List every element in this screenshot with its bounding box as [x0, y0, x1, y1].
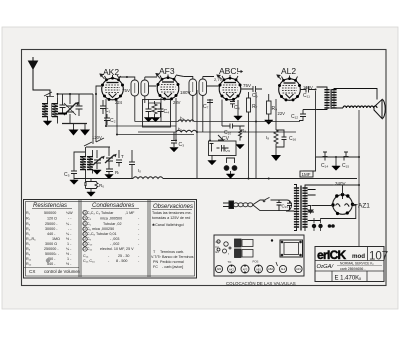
wire speaker return [358, 110, 360, 246]
ABC1 grid stub [217, 75, 222, 79]
observaciones text [151, 211, 194, 269]
svg-text:Rₗ: Rₗ [115, 170, 119, 175]
svg-text:440 -: 440 - [47, 232, 56, 236]
arrow between circles [276, 262, 278, 266]
svg-text:R₅: R₅ [26, 232, 31, 236]
ground under osc caps [105, 175, 113, 179]
wire verticals right [256, 91, 316, 179]
volume control section: C10 cap [222, 124, 245, 129]
svg-text:AL2: AL2 [281, 267, 286, 271]
svg-text:NORMAL SERVICE Kₐ: NORMAL SERVICE Kₐ [340, 262, 374, 266]
ground bar below tuning [62, 123, 87, 125]
svg-text:O C₁₀: O C₁₀ [83, 242, 93, 246]
tube AL2 [278, 76, 301, 102]
ground arrow below R9 [265, 120, 273, 124]
smudge dot in table [46, 258, 50, 262]
resistor rows text [26, 211, 73, 266]
ground arrow between C14 C15 [335, 157, 337, 166]
wire vertical ABC1 down [222, 100, 249, 179]
svg-text:C₁₄: C₁₄ [83, 254, 89, 258]
ground bus wire y178.5 [74, 178, 357, 180]
svg-text:8 - 500: 8 - 500 [116, 259, 127, 263]
svg-text:½ -: ½ - [66, 262, 72, 266]
title box [315, 247, 384, 282]
svg-text:Todas las tensiones me-: Todas las tensiones me- [152, 211, 193, 215]
svg-text:T: T [121, 154, 124, 159]
knob labels [216, 240, 230, 256]
svg-text:O C₇C₈ Tubular 0,01: O C₇C₈ Tubular 0,01 [83, 232, 117, 236]
output transformer [317, 87, 378, 110]
oscillator coil L2 [80, 147, 93, 182]
svg-text:R₁₂: R₁₂ [26, 262, 32, 266]
svg-text:Banco de Terminos: Banco de Terminos [162, 255, 194, 259]
tube AZ1 [331, 193, 354, 215]
ground under C5 [70, 180, 78, 184]
svg-text:C₇: C₇ [203, 104, 209, 110]
svg-text:Tubular ,02: Tubular ,02 [103, 222, 122, 226]
C5a cap in shield box [146, 103, 152, 118]
svg-text:control de Volumen: control de Volumen [44, 269, 81, 274]
svg-text:O C₆ mica ,000250: O C₆ mica ,000250 [83, 227, 114, 231]
screw dot [271, 239, 273, 241]
ground arrow cathode [275, 147, 277, 155]
1MF box [300, 157, 316, 177]
svg-text:carb 28694656 -: carb 28694656 - [340, 267, 366, 271]
antenna [29, 57, 51, 96]
tube circles row [215, 265, 302, 273]
C3 cap on bus [171, 132, 177, 147]
svg-text:120V: 120V [92, 135, 102, 140]
C11 cap right of AL2 [300, 87, 316, 93]
mains switch [263, 197, 287, 201]
svg-text:mod: mod [352, 253, 365, 260]
R9 resistor below AL2 [267, 94, 272, 120]
ground under R6 [87, 192, 95, 196]
svg-text:C₁₄: C₁₄ [321, 163, 328, 169]
power transformer [286, 185, 333, 232]
svg-text:22V: 22V [278, 111, 286, 116]
svg-text:75V: 75V [122, 88, 130, 93]
speaker voice coil wire [343, 106, 377, 108]
svg-text:Condensadores: Condensadores [92, 203, 134, 209]
svg-text:b₆: b₆ [178, 127, 183, 132]
wire bus y121.5 [135, 121, 300, 123]
power transformer top view [280, 240, 303, 257]
C1 cap below AK2 [100, 100, 106, 114]
svg-text:C₁₃: C₁₃ [282, 204, 289, 209]
svg-text:R₄: R₄ [26, 227, 31, 231]
svg-text:Iₒ: Iₒ [138, 168, 141, 173]
AZ1 cathode wires [312, 205, 356, 219]
svg-text:R₆: R₆ [99, 183, 104, 188]
C7 cap on detector line [207, 99, 213, 103]
AF3 grid cap stub [156, 74, 160, 79]
svg-text:C₆: C₆ [225, 148, 231, 154]
C cap at x132 [129, 150, 135, 179]
svg-text:AZ1: AZ1 [296, 267, 301, 271]
condensador circles [83, 210, 87, 251]
svg-text:C₁₅ C₁₆: C₁₅ C₁₆ [83, 259, 95, 263]
svg-text:R₇: R₇ [252, 104, 258, 110]
antenna series cap [60, 94, 66, 113]
svg-text:POS: POS [253, 260, 259, 264]
svg-text:R₁₁: R₁₁ [26, 257, 32, 261]
wire bus y134.5 [117, 134, 194, 136]
AL2 grid stub [277, 75, 281, 80]
antenna input transformer L1 [42, 96, 58, 124]
svg-text:1MΩ: 1MΩ [52, 237, 60, 241]
tube ABC1 [219, 75, 242, 101]
svg-text:AF3: AF3 [243, 267, 248, 271]
svg-text:½ -: ½ - [66, 252, 72, 256]
svg-text:R₃: R₃ [26, 222, 31, 226]
ground under varcap1 [93, 170, 101, 174]
svg-text:R₁₀R₆: R₁₀R₆ [26, 237, 36, 241]
pilot lamps below transformer [312, 224, 316, 228]
ground under L1 [43, 121, 51, 125]
ground below C6 [211, 156, 213, 161]
svg-text:A83: A83 [217, 267, 222, 271]
svg-text:C₁₆: C₁₆ [289, 136, 296, 142]
phone jack TA [224, 158, 237, 174]
wire vertical from T1 area down [135, 100, 145, 122]
C9 coupling cap to AL2 [241, 86, 262, 92]
svg-text:C₄: C₄ [164, 109, 170, 115]
svg-text:¼ -: ¼ - [66, 232, 72, 236]
svg-text:C₂: C₂ [110, 118, 116, 124]
svg-text:3000 Ω: 3000 Ω [45, 242, 57, 246]
ground under C3 [170, 148, 178, 152]
arrow at transformer [308, 205, 313, 213]
svg-text:- ,002: - ,002 [110, 242, 119, 246]
knob circles top-left [217, 240, 231, 253]
ground arrows in shield box [144, 118, 152, 122]
svg-text:mica ,000500: mica ,000500 [100, 217, 122, 221]
svg-text:1MF: 1MF [302, 172, 311, 177]
svg-text:OɪGA/: OɪGA/ [317, 264, 335, 270]
ground under jack [226, 174, 234, 178]
svg-text:✱Canal Vallehingol: ✱Canal Vallehingol [152, 223, 184, 227]
trimmer C-t [76, 94, 83, 113]
svg-text:E 1.470Kₓ: E 1.470Kₓ [335, 276, 362, 282]
horizontal buses [106, 120, 300, 135]
pin dots in tube circles [231, 265, 260, 273]
arrow to AZ1 [354, 204, 358, 206]
svg-text:PN: PN [153, 260, 158, 264]
C5 cap left [71, 152, 86, 180]
long vertical feeders mid [106, 90, 316, 179]
svg-text:AL2: AL2 [281, 66, 296, 76]
tuning gang CV1 [64, 94, 78, 124]
chassis box [214, 235, 304, 276]
wire AL2 cathode down [275, 99, 277, 130]
svg-text:R₉: R₉ [272, 106, 278, 112]
wire T2 to ABC1 [176, 75, 220, 86]
svg-text:Terminos carb.: Terminos carb. [160, 250, 184, 254]
wire bus y132 [138, 131, 296, 133]
svg-text:50000ₖ -: 50000ₖ - [45, 252, 60, 256]
AZ1 top wire [333, 185, 359, 195]
oscillator section: 120V switch wires [84, 98, 110, 147]
schematic border frame [22, 50, 387, 286]
C12 cap below [299, 110, 317, 121]
svg-text:CX: CX [29, 269, 35, 274]
svg-text:C₈: C₈ [234, 105, 240, 111]
svg-text:R₉: R₉ [26, 252, 31, 256]
caps under oscillator [106, 167, 113, 175]
oscillator varcap 1 [93, 150, 104, 169]
svg-text:AZ1: AZ1 [358, 203, 370, 210]
AK2 grid cap stub [100, 74, 119, 79]
svg-text:¼W: ¼W [66, 211, 73, 215]
twisted pair [234, 200, 288, 211]
IF transformer T1 [127, 77, 149, 100]
wire vertical from AK2 pins down [106, 99, 117, 135]
wire vertical from AF3 down [161, 98, 176, 141]
svg-text:tomadas a 125V de red: tomadas a 125V de red [152, 216, 190, 220]
coil in ground bus [133, 177, 163, 179]
svg-text:AK2: AK2 [229, 267, 234, 271]
svg-text:AF3: AF3 [159, 66, 175, 76]
C16 parallel cap loop [276, 130, 287, 147]
svg-text:25 - 30: 25 - 30 [118, 254, 129, 258]
svg-text:AB2: AB2 [268, 267, 273, 271]
coil b5 in bus [178, 120, 194, 122]
condensador rows [83, 211, 140, 263]
svg-text:500000: 500000 [44, 211, 56, 215]
C8 cap [230, 102, 235, 108]
table outer border [24, 200, 197, 279]
ABC1 label arrow [238, 71, 243, 73]
svg-text:25000 -: 25000 - [45, 222, 58, 226]
filter caps C14 C15 [316, 152, 360, 161]
svg-text:C₃: C₃ [179, 142, 185, 148]
ground arrows tuning [69, 130, 79, 136]
R below AF3 [152, 101, 157, 118]
svg-text:¼ -: ¼ - [66, 247, 72, 251]
svg-text:75V: 75V [243, 83, 251, 88]
svg-text:,1 MF: ,1 MF [125, 211, 135, 215]
svg-text:30000 -: 30000 - [45, 227, 58, 231]
svg-text:- ,003: - ,003 [110, 237, 119, 241]
IF transformer T2 [184, 77, 207, 100]
svg-text:½ -: ½ - [66, 237, 72, 241]
R7 resistor below C9 [247, 92, 251, 120]
tube circle labels [217, 267, 302, 271]
svg-text:224: 224 [115, 100, 123, 105]
svg-text:Observaciones: Observaciones [153, 204, 193, 210]
tube AF3 [157, 75, 180, 101]
wire T1 to AF3 [119, 77, 157, 86]
junction dots T1 [126, 76, 128, 78]
svg-text:V.T/Tr: V.T/Tr [151, 255, 162, 259]
wire vertical from T2 down [193, 100, 203, 133]
svg-text:COLOCACIÓN DE LAS VALVULAS: COLOCACIÓN DE LAS VALVULAS [226, 281, 296, 286]
svg-text:Resistencias: Resistencias [33, 203, 67, 209]
junction dots buses [57, 89, 361, 187]
wire loop end [287, 200, 292, 211]
svg-text:R₈: R₈ [26, 247, 31, 251]
svg-text:¼ -: ¼ - [66, 222, 72, 226]
antenna coil switch [44, 92, 70, 98]
wire vertical T2/ABC1 down [197, 90, 210, 179]
svg-text:C₉: C₉ [252, 93, 258, 99]
svg-text:- carb.[avion]: - carb.[avion] [162, 265, 183, 269]
coil b6 in bus [176, 130, 197, 132]
svg-text:250000 -: 250000 - [44, 247, 59, 251]
shield box below AF3 [143, 100, 171, 128]
C2 cap [104, 114, 110, 125]
C4 cap below AF3 [158, 103, 164, 118]
speaker cone [374, 100, 385, 119]
mains plug [223, 201, 234, 209]
wire antenna bus to AK2 grid [58, 86, 102, 136]
svg-text:28V: 28V [173, 100, 181, 105]
svg-text:FC: FC [153, 265, 158, 269]
svg-text:C₅: C₅ [64, 172, 70, 178]
ground below ABC1 [237, 100, 239, 116]
R6 C cell below bus [84, 179, 98, 193]
svg-text:R₂: R₂ [26, 217, 31, 221]
svg-text:Pedido normal: Pedido normal [160, 260, 184, 264]
svg-text:C₁₁: C₁₁ [303, 93, 310, 99]
svg-text:E4: E4 [216, 250, 220, 254]
cathode bias choke b8 [274, 130, 278, 147]
svg-text:2,7V: 2,7V [214, 77, 223, 82]
svg-text:C₁₂: C₁₂ [291, 114, 298, 120]
C6 box [209, 141, 237, 156]
oscillator varcap 2 (CO) [105, 147, 116, 167]
svg-text:b₅: b₅ [180, 116, 185, 121]
svg-text:erICK: erICK [317, 248, 347, 262]
svg-text:AB1: AB1 [256, 267, 261, 271]
svg-text:O C₁₁: O C₁₁ [83, 247, 93, 251]
R8 resistor [239, 126, 242, 141]
svg-text:C₁₅: C₁₅ [342, 163, 349, 169]
C13 cap [277, 200, 293, 211]
svg-text:electrol. 10 MF, 25 V: electrol. 10 MF, 25 V [100, 247, 134, 251]
svg-text:O C₁C₂ C₃ Tubular: O C₁C₂ C₃ Tubular [83, 211, 114, 215]
svg-text:ABC!: ABC! [219, 66, 239, 76]
wire bus y126 [106, 125, 176, 127]
IF can pair 1 [235, 239, 254, 247]
dark bar under antenna cap [58, 113, 67, 115]
trimmer T [116, 150, 122, 167]
IF can pair 2 [235, 249, 254, 258]
svg-text:120 Ω: 120 Ω [47, 217, 57, 221]
svg-text:ON: ON [216, 240, 220, 244]
svg-text:I₈: I₈ [266, 135, 269, 140]
tube AK2 [101, 75, 124, 101]
volume pot CV [218, 135, 224, 140]
